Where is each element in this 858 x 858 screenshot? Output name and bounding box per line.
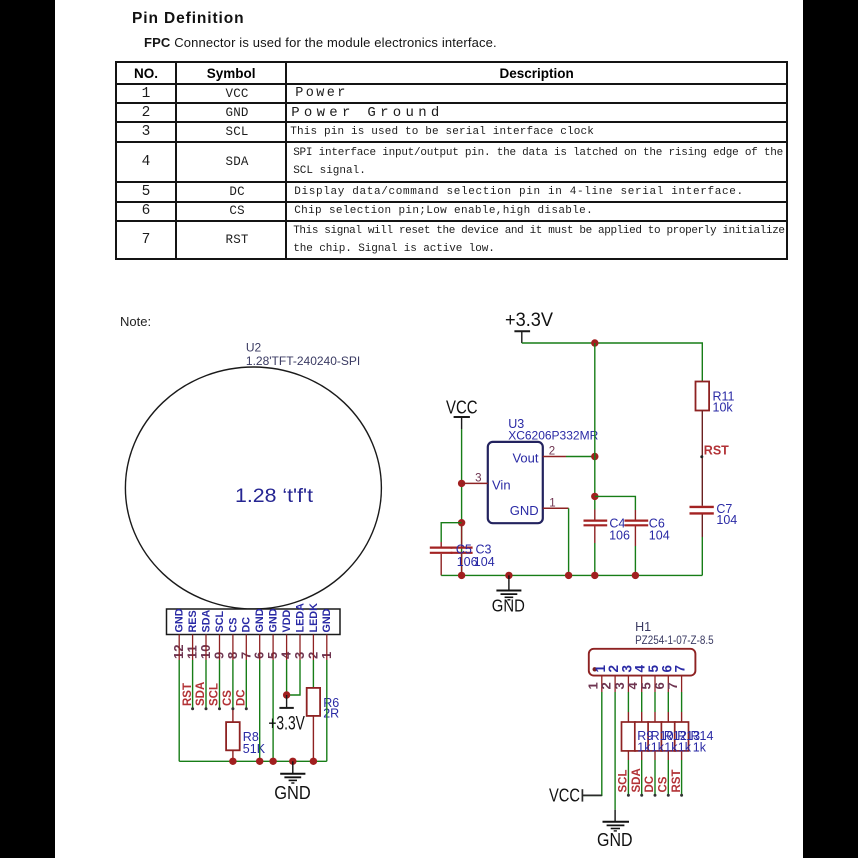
H1 pin 7 stub <box>681 676 683 692</box>
FPC pin 12 stub <box>178 635 180 661</box>
wire pin11 to net label RST <box>192 660 194 709</box>
rail junction <box>269 758 276 765</box>
svg-text:RST: RST <box>704 444 729 458</box>
wire R9 to net label SCL <box>627 751 629 760</box>
resistor R10 <box>635 722 649 751</box>
R8 bottom lead <box>232 750 234 761</box>
svg-text:CS: CS <box>227 618 239 633</box>
wire R12 to net label DC <box>654 751 656 760</box>
svg-text:XC6206P332MR: XC6206P332MR <box>508 428 598 442</box>
capacitor C3 <box>461 526 463 547</box>
U3 pin 2 Vout <box>543 456 566 458</box>
svg-text:SCL: SCL <box>209 683 221 706</box>
svg-text:2: 2 <box>549 446 555 458</box>
wire mid column down <box>594 343 596 510</box>
wire pin10 to net label SDA <box>205 660 207 709</box>
svg-text:DC: DC <box>236 689 248 706</box>
rail junction <box>229 758 236 765</box>
svg-text:SCL: SCL <box>618 770 630 793</box>
svg-text:GND: GND <box>321 608 333 632</box>
FPC pin 5 stub <box>272 635 274 661</box>
net label DC terminal dot <box>654 794 657 797</box>
wire +3.3V top rail <box>522 343 703 382</box>
wire H1 pin6 to R13 <box>667 692 669 712</box>
svg-text:SDA: SDA <box>200 610 212 633</box>
ground symbol (H1) <box>603 810 630 831</box>
rail junction <box>505 572 512 579</box>
svg-text:2R: 2R <box>323 707 339 721</box>
resistor R14 <box>675 722 689 751</box>
resistor R8 <box>226 722 240 750</box>
svg-text:10k: 10k <box>713 401 734 415</box>
resistor R6 <box>307 688 320 716</box>
svg-text:Vout: Vout <box>512 450 538 465</box>
svg-text:104: 104 <box>649 529 670 543</box>
svg-text:1k: 1k <box>678 741 692 755</box>
svg-text:51K: 51K <box>243 742 266 756</box>
svg-text:7: 7 <box>665 682 680 689</box>
wire R11 to C7 <box>701 411 703 506</box>
wire pin3 LEDA down and over to +3.3V <box>287 660 300 695</box>
svg-text:3: 3 <box>475 472 481 484</box>
capacitor C6 <box>625 519 649 521</box>
wire H1 pin7 to R14 <box>681 692 683 712</box>
svg-text:GND: GND <box>597 830 633 850</box>
svg-text:GND: GND <box>174 608 186 632</box>
FPC pin 10 stub <box>205 635 207 661</box>
wire C4-C6 top link <box>595 496 636 510</box>
wire R13 to net label CS <box>667 751 669 760</box>
svg-text:SCL: SCL <box>214 611 226 633</box>
FPC ground rail <box>179 760 327 762</box>
FPC connector body <box>167 609 341 635</box>
capacitor C7 <box>690 506 714 508</box>
svg-text:7: 7 <box>673 665 688 673</box>
resistor R11 <box>696 382 710 411</box>
title <box>132 10 244 28</box>
left black margin bar <box>0 0 55 858</box>
wire pin9 to net label SCL <box>219 660 221 709</box>
FPC pin 8 stub <box>232 635 234 661</box>
right black margin bar <box>803 0 858 858</box>
rail junction <box>591 572 598 579</box>
R6 bottom lead <box>312 716 314 761</box>
rail junction <box>632 572 639 579</box>
rail junction <box>458 572 465 579</box>
svg-text:1.28'TFT-240240-SPI: 1.28'TFT-240240-SPI <box>246 354 360 368</box>
svg-text:CS: CS <box>222 690 234 706</box>
wire pin8 CS down to R8 <box>232 660 234 709</box>
svg-text:1k: 1k <box>637 741 651 755</box>
resistor R13 <box>661 722 675 751</box>
net label DC terminal dot <box>245 707 248 710</box>
FPC pin 1 stub <box>326 635 328 661</box>
resistor R9 <box>622 722 636 751</box>
H1 pin1 polarity dot <box>593 667 597 671</box>
net label RST terminal dot <box>191 707 194 710</box>
svg-text:+3.3V: +3.3V <box>505 310 553 331</box>
bottom rail (regulator) <box>441 574 702 576</box>
display U2 round outline <box>125 367 381 609</box>
note label <box>120 314 151 329</box>
svg-text:VDD: VDD <box>281 610 293 633</box>
svg-text:VCC: VCC <box>446 397 478 418</box>
svg-text:RES: RES <box>187 610 199 632</box>
svg-text:GND: GND <box>492 595 525 615</box>
svg-text:1k: 1k <box>664 741 678 755</box>
svg-text:RST: RST <box>182 683 194 706</box>
H1 pin 6 stub <box>667 676 669 692</box>
wire R14 to net label RST <box>681 751 683 760</box>
wire H1 pin3 to R9 <box>627 692 629 712</box>
svg-text:CS: CS <box>658 776 670 792</box>
ground symbol (regulator) <box>496 575 521 599</box>
svg-text:GND: GND <box>510 503 539 518</box>
svg-text:+3.3V: +3.3V <box>268 714 305 735</box>
wire R10 to net label SDA <box>641 751 643 760</box>
H1 pin 2 stub <box>614 676 616 692</box>
U3 pin 3 Vin <box>462 482 488 484</box>
wire pin6 GND down <box>259 660 261 761</box>
FPC pin 6 stub <box>259 635 261 661</box>
net label SDA terminal dot <box>205 707 208 710</box>
svg-text:SDA: SDA <box>195 682 207 706</box>
net label SCL terminal dot <box>218 707 221 710</box>
svg-text:1: 1 <box>549 497 555 509</box>
power +3.3V (FPC) <box>283 691 290 698</box>
wire H1 pin4 to R10 <box>641 692 643 712</box>
svg-text:106: 106 <box>609 529 630 543</box>
svg-text:1k: 1k <box>651 741 665 755</box>
svg-text:SDA: SDA <box>631 768 643 792</box>
H1 pin 5 stub <box>654 676 656 692</box>
capacitor C5 <box>430 546 453 548</box>
net label SCL terminal dot <box>627 794 630 797</box>
wire VCC column <box>461 429 463 575</box>
wire C7 to rail <box>701 515 703 538</box>
regulator U3 body <box>488 442 543 523</box>
net label RST terminal dot <box>700 455 703 458</box>
junction C4 top <box>591 493 598 500</box>
svg-text:RST: RST <box>671 770 683 793</box>
FPC pin 3 stub <box>299 635 301 661</box>
svg-text:GND: GND <box>268 608 280 632</box>
wire H1 pin1 to VCC <box>582 692 601 795</box>
wire pin1 GND down to rail <box>326 660 328 761</box>
svg-text:104: 104 <box>474 555 495 569</box>
header H1 body <box>589 649 696 676</box>
pin definition table <box>115 61 788 260</box>
wire pin7 to net label DC <box>245 660 247 709</box>
rail junction <box>256 758 263 765</box>
junction VCC/C5C3 <box>458 519 465 526</box>
ground symbol (FPC rail) <box>280 761 305 783</box>
junction Vout/mid column <box>591 453 598 460</box>
FPC pin 4 stub <box>286 635 288 661</box>
svg-text:GND: GND <box>254 608 266 632</box>
H1 pin 3 stub <box>627 676 629 692</box>
svg-text:DC: DC <box>241 617 253 633</box>
net label RST terminal dot <box>680 794 683 797</box>
wire H1 pin2 to GND <box>614 692 616 810</box>
VCC port bracket <box>581 789 583 801</box>
resistor R12 <box>648 722 662 751</box>
svg-text:Vin: Vin <box>492 478 511 493</box>
svg-text:LEDK: LEDK <box>308 603 320 633</box>
svg-text:GND: GND <box>274 782 311 803</box>
FPC pin 7 stub <box>245 635 247 661</box>
svg-text:VCC: VCC <box>549 784 580 805</box>
svg-text:LEDA: LEDA <box>294 603 306 633</box>
wire pin12 GND down to rail <box>178 660 180 761</box>
svg-text:1.28 ‘t'f't: 1.28 ‘t'f't <box>235 485 314 507</box>
junction top rail / mid column <box>591 339 598 346</box>
junction VCC/Vin <box>458 480 465 487</box>
svg-text:U2: U2 <box>246 341 262 355</box>
rail junction <box>565 572 572 579</box>
svg-text:104: 104 <box>716 513 737 527</box>
svg-text:DC: DC <box>644 776 656 793</box>
wire pin2 LEDK down to R6 <box>312 660 314 688</box>
svg-text:1k: 1k <box>693 741 707 755</box>
FPC pin 11 stub <box>192 635 194 661</box>
net label CS terminal dot <box>231 707 234 710</box>
net label CS terminal dot <box>667 794 670 797</box>
wire pin4 VDD down to +3.3V <box>286 660 288 695</box>
wire H1 pin5 to R12 <box>654 692 656 712</box>
U3 pin 1 GND <box>543 507 569 509</box>
H1 pin 4 stub <box>641 676 643 692</box>
wire pin5 GND down <box>272 660 274 761</box>
capacitor C4 <box>584 519 608 521</box>
svg-text:PZ254-1-07-Z-8.5: PZ254-1-07-Z-8.5 <box>635 633 714 647</box>
FPC pin 2 stub <box>312 635 314 661</box>
H1 pin 1 stub <box>601 676 603 692</box>
subtitle <box>144 35 497 50</box>
net label SDA terminal dot <box>640 794 643 797</box>
rail junction <box>310 758 317 765</box>
FPC pin 9 stub <box>219 635 221 661</box>
wire C5/C3 branch <box>441 523 461 542</box>
rail junction <box>289 758 296 765</box>
